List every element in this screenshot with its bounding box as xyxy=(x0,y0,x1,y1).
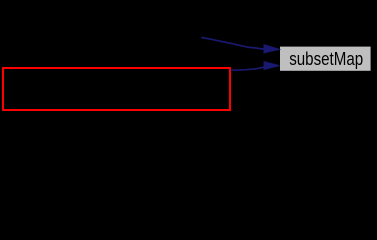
svg-text:subsetMap: subsetMap xyxy=(289,48,363,69)
